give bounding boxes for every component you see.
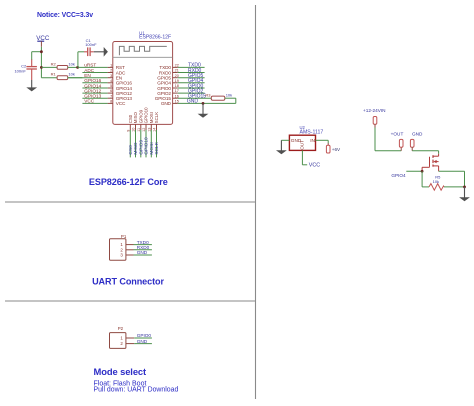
svg-text:OUT: OUT: [300, 140, 305, 150]
svg-text:CS0: CS0: [128, 145, 134, 155]
svg-text:SCLK: SCLK: [154, 112, 159, 124]
svg-text:GND: GND: [412, 132, 423, 137]
svg-text:IN: IN: [310, 138, 315, 143]
svg-text:GPIO10: GPIO10: [144, 107, 149, 123]
svg-text:VCC: VCC: [309, 162, 320, 168]
svg-text:VCC: VCC: [116, 101, 126, 106]
svg-text:GND: GND: [161, 101, 172, 106]
svg-text:GND: GND: [137, 339, 148, 344]
svg-text:10k: 10k: [226, 92, 232, 97]
svg-text:GPIO9: GPIO9: [139, 140, 145, 155]
svg-text:GPIO4: GPIO4: [391, 173, 406, 178]
svg-text:GPIO10: GPIO10: [144, 137, 150, 155]
svg-text:2: 2: [110, 69, 112, 73]
svg-text:VCC: VCC: [84, 99, 95, 104]
svg-text:8: 8: [110, 100, 112, 104]
svg-text:10k: 10k: [68, 72, 74, 77]
svg-text:12: 12: [142, 128, 146, 132]
svg-text:AMS-1117: AMS-1117: [300, 129, 324, 135]
svg-text:UART Connector: UART Connector: [92, 277, 164, 287]
svg-text:R2: R2: [51, 61, 57, 66]
svg-text:ESP8266-12F: ESP8266-12F: [139, 35, 171, 41]
svg-text:MISO: MISO: [133, 111, 138, 123]
svg-text:+12-24VIN: +12-24VIN: [363, 108, 386, 113]
svg-text:3: 3: [110, 74, 112, 78]
svg-text:R3: R3: [205, 92, 211, 97]
svg-text:6: 6: [110, 89, 112, 93]
svg-text:10k: 10k: [68, 61, 74, 66]
svg-text:Notice: VCC=3.3v: Notice: VCC=3.3v: [37, 12, 93, 19]
svg-text:14: 14: [153, 128, 157, 132]
svg-text:100nF: 100nF: [85, 42, 97, 47]
svg-text:4: 4: [110, 79, 112, 83]
svg-text:9: 9: [127, 130, 131, 132]
svg-text:7: 7: [110, 94, 112, 98]
svg-text:GPIO0: GPIO0: [137, 333, 152, 338]
svg-text:P1: P1: [121, 234, 127, 239]
svg-text:1: 1: [110, 64, 112, 68]
svg-text:+OUT: +OUT: [391, 132, 404, 137]
svg-text:SCLK: SCLK: [154, 141, 160, 154]
svg-text:10k: 10k: [433, 179, 439, 184]
svg-text:Pull down: UART Download: Pull down: UART Download: [94, 386, 179, 393]
svg-text:+6V: +6V: [332, 147, 341, 152]
svg-text:GND: GND: [137, 250, 148, 255]
svg-text:R1: R1: [51, 72, 57, 77]
svg-text:ESP8266-12F Core: ESP8266-12F Core: [89, 177, 168, 187]
svg-text:13: 13: [148, 128, 152, 132]
svg-text:5: 5: [110, 84, 112, 88]
svg-text:Mode select: Mode select: [94, 366, 147, 377]
svg-text:10: 10: [132, 128, 136, 132]
svg-text:11: 11: [137, 128, 141, 132]
svg-text:MISO: MISO: [133, 142, 139, 155]
svg-text:P2: P2: [118, 326, 124, 331]
svg-text:100nF: 100nF: [14, 68, 26, 73]
svg-text:MOSI: MOSI: [149, 142, 155, 154]
